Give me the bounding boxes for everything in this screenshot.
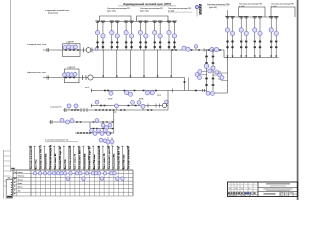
svg-text:(ввод тепла): (ввод тепла)	[48, 12, 58, 14]
svg-text:Вент. П1к: Вент. П1к	[36, 159, 38, 169]
svg-text:Система ГВС корп. Б1: Система ГВС корп. Б1	[60, 146, 62, 169]
svg-text:с ОДУ РФ: с ОДУ РФ	[67, 66, 75, 69]
svg-text:Система вент. АБК П3: Система вент. АБК П3	[78, 146, 81, 169]
svg-text:Кол-во: Кол-во	[18, 179, 23, 181]
svg-text:Отопление В6к: Отопление В6к	[114, 153, 116, 169]
svg-text:к вводной тепл. сети: к вводной тепл. сети	[27, 43, 46, 46]
svg-text:(крат. №1): (крат. №1)	[107, 9, 116, 12]
svg-text:Сист. отопл. Г1: Сист. отопл. Г1	[75, 153, 77, 169]
svg-text:Система вентиляции П5: Система вентиляции П5	[271, 4, 295, 6]
svg-text:к системе Т1: к системе Т1	[50, 107, 61, 109]
svg-text:Отопление В4к: Отопление В4к	[84, 153, 86, 169]
svg-text:Тип: Тип	[18, 190, 21, 192]
svg-text:Н1 Н2: Н1 Н2	[108, 99, 112, 101]
svg-text:Отопление В2к: Отопление В2к	[45, 153, 47, 169]
svg-text:(крат. №2): (крат. №2)	[140, 9, 149, 12]
svg-text:к системе отопления Т2: к системе отопления Т2	[45, 140, 69, 142]
svg-text:Поз. обозн.: Поз. обозн.	[14, 172, 23, 174]
svg-text:Система ГВС корп. В2: Система ГВС корп. В2	[89, 146, 91, 169]
svg-text:Система отопления В5: Система отопления В5	[99, 145, 101, 169]
svg-text:Система отопления ГВС: Система отопления ГВС	[207, 4, 230, 6]
svg-text:Индивидуальный тепловой пункт: Индивидуальный тепловой пункт (ИТП)	[123, 2, 171, 6]
svg-text:Сист. отопл. А2: Сист. отопл. А2	[54, 153, 57, 169]
svg-text:Сист. отопл. С1: Сист. отопл. С1	[104, 153, 106, 169]
svg-text:Т21.1: Т21.1	[157, 95, 161, 97]
svg-text:Система ГВС АБК Т3к: Система ГВС АБК Т3к	[117, 146, 120, 169]
svg-text:Система отопления В3: Система отопления В3	[70, 145, 72, 169]
svg-text:Система отопления В7: Система отопления В7	[128, 145, 130, 169]
svg-text:Прим.: Прим.	[18, 183, 23, 185]
svg-text:Вент. П6к сист.: Вент. П6к сист.	[123, 154, 125, 169]
svg-text:Масса: Масса	[18, 187, 23, 189]
svg-text:Система вентиляции П4: Система вентиляции П4	[239, 4, 263, 6]
svg-text:обратная тепл. сеть: обратная тепл. сеть	[27, 72, 46, 74]
svg-text:Система вент. цеха П5: Система вент. цеха П5	[109, 145, 111, 169]
svg-text:Система отопл. ГВС Т3: Система отопл. ГВС Т3	[40, 144, 42, 169]
svg-text:Система отопления В1: Система отопления В1	[31, 145, 33, 169]
svg-text:Вент. П4к сист.: Вент. П4к сист.	[94, 154, 96, 169]
svg-text:с ОДУ РФ: с ОДУ РФ	[66, 41, 74, 44]
svg-text:Обознач.: Обознач.	[18, 176, 25, 178]
svg-text:нас.1: нас.1	[85, 87, 89, 89]
svg-text:Н3 Н4: Н3 Н4	[139, 99, 143, 101]
svg-text:Вент. П2к: Вент. П2к	[65, 159, 67, 169]
svg-text:Система вентиляции у1: Система вентиляции у1	[50, 144, 52, 169]
